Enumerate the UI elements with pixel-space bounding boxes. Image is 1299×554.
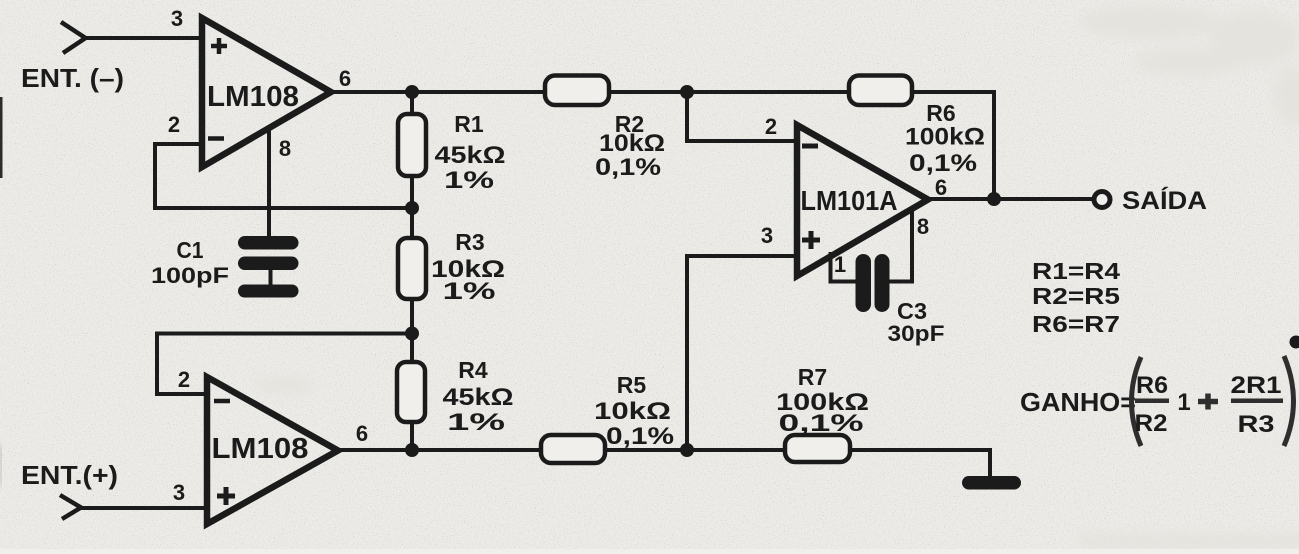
pin 6 label (U2): [356, 421, 368, 446]
formula: GANHO gain equation: [1020, 356, 1294, 446]
svg-text:SAÍDA: SAÍDA: [1122, 186, 1207, 215]
svg-text:1: 1: [1177, 389, 1190, 416]
note: resistor matching: [1032, 258, 1120, 337]
svg-text:3: 3: [173, 480, 185, 505]
resistor R7: [785, 435, 850, 462]
resistor R6: [849, 76, 912, 106]
label R6 value: [905, 100, 985, 177]
node: R4 bottom / U2 output: [405, 443, 419, 457]
wire: U1 pin 8 down to C1: [267, 128, 271, 240]
pin 3 label (U3): [761, 223, 773, 248]
svg-text:LM108: LM108: [212, 433, 309, 465]
svg-text:R3: R3: [1238, 411, 1275, 438]
label ENT.(+): [21, 460, 118, 490]
wire: ENT.(-) input to U1 pin 3: [84, 36, 203, 40]
pin 2 label (U1): [168, 112, 180, 137]
node A: R1/R3 junction with U1 feedback: [405, 201, 419, 215]
svg-text:R5: R5: [617, 372, 647, 398]
svg-text:8: 8: [917, 214, 929, 239]
label R3 value: [431, 229, 505, 305]
svg-text:6: 6: [935, 175, 947, 200]
svg-text:ENT. (–): ENT. (–): [21, 63, 124, 93]
svg-text:100pF: 100pF: [151, 263, 229, 288]
pin 2 label (U2): [178, 367, 190, 392]
resistor R4: [397, 362, 425, 422]
pin 8 label (U3): [917, 214, 929, 239]
wire: top rail U1 out through R2 and R6: [328, 90, 994, 94]
label LM108 (U2): [212, 433, 309, 465]
pin 3 label (U1): [171, 6, 183, 31]
input terminal ENT.(+) arrow: [60, 495, 81, 519]
svg-text:0,1%: 0,1%: [909, 150, 977, 177]
svg-text:45kΩ: 45kΩ: [443, 384, 514, 411]
wire: U3 pin 8 lead to C3: [888, 207, 912, 282]
resistor R2: [545, 76, 609, 106]
svg-text:R1: R1: [454, 111, 484, 137]
output terminal SAIDA: [1094, 192, 1110, 208]
svg-text:2: 2: [765, 114, 777, 139]
svg-text:LM101A: LM101A: [801, 185, 898, 216]
label LM101A (U3): [801, 185, 898, 216]
op-amp U3 LM101A: [797, 125, 928, 276]
pin 6 label (U3): [935, 175, 947, 200]
wire: R7 to ground: [988, 448, 992, 478]
node B: R3/R4 junction with U2 feedback: [405, 327, 419, 341]
svg-text:R4: R4: [458, 357, 488, 383]
svg-text:8: 8: [279, 136, 291, 161]
svg-text:1%: 1%: [444, 167, 494, 194]
svg-text:3: 3: [761, 223, 773, 248]
pin 2 label (U3): [765, 114, 777, 139]
resistor R3: [398, 238, 426, 299]
svg-text:R6: R6: [926, 100, 955, 126]
pin 6 label (U1): [339, 66, 351, 91]
op-amp U1 LM108 (top): [202, 18, 331, 167]
svg-text:100kΩ: 100kΩ: [905, 124, 985, 151]
label ENT.(-): [21, 63, 124, 93]
svg-text:GANHO=: GANHO=: [1020, 387, 1136, 417]
svg-text:6: 6: [339, 66, 351, 91]
wire: bottom rail U2 out through R5 and R7: [335, 448, 990, 452]
ground: [962, 476, 1021, 490]
pin 8 label (U1): [279, 136, 291, 161]
pin 1 label (U3): [834, 252, 846, 277]
svg-text:R6=R7: R6=R7: [1032, 311, 1120, 337]
label R1 value: [435, 111, 506, 194]
svg-text:R2=R5: R2=R5: [1032, 283, 1120, 309]
capacitor C3: [856, 254, 890, 312]
wire: U2 pin 2 feedback to node B: [157, 334, 412, 395]
svg-text:10kΩ: 10kΩ: [599, 130, 665, 157]
capacitor C1: [238, 236, 299, 298]
svg-text:2R1: 2R1: [1231, 372, 1282, 399]
svg-text:3: 3: [171, 6, 183, 31]
op-amp U2 LM108 (bottom): [207, 377, 338, 524]
svg-text:R3: R3: [455, 229, 484, 255]
svg-text:R1=R4: R1=R4: [1032, 258, 1120, 284]
node: U1 output / R1 top: [405, 85, 419, 99]
svg-text:R2: R2: [1135, 410, 1168, 437]
svg-text:0,1%: 0,1%: [606, 423, 674, 450]
svg-text:ENT.(+): ENT.(+): [21, 460, 118, 490]
label R2 value: [595, 111, 665, 181]
wire: feedback drop R6 right to output node: [992, 90, 996, 199]
label R5 value: [594, 372, 674, 450]
svg-text:LM108: LM108: [207, 81, 299, 113]
node: bottom rail / U3 pin 3 branch: [680, 443, 694, 457]
wire: vertical R1/R3/R4 chain: [410, 92, 414, 450]
svg-text:1%: 1%: [443, 278, 496, 305]
wire: U3 pin 2 branch from top rail: [687, 92, 795, 141]
label R7 value: [776, 364, 869, 437]
svg-text:R6: R6: [1136, 372, 1168, 399]
svg-text:1%: 1%: [447, 409, 505, 436]
svg-text:10kΩ: 10kΩ: [594, 398, 671, 425]
svg-text:2: 2: [178, 367, 190, 392]
svg-text:0,1%: 0,1%: [595, 154, 661, 181]
node: output / R6 feedback junction: [987, 192, 1001, 206]
svg-text:C1: C1: [177, 237, 204, 263]
svg-text:30pF: 30pF: [888, 321, 945, 346]
wire: U3 pin 1 lead to C3: [831, 252, 859, 282]
resistor R1: [398, 114, 426, 176]
label SAIDA: [1122, 186, 1207, 215]
svg-text:0,1%: 0,1%: [779, 410, 864, 437]
node: top rail / U3 pin 2 branch: [680, 85, 694, 99]
svg-text:45kΩ: 45kΩ: [435, 142, 506, 169]
label LM108 (U1): [207, 81, 299, 113]
wire: ENT.(+) input to U2 pin 3: [80, 506, 208, 510]
label C3 value: [888, 298, 945, 346]
svg-text:1: 1: [834, 252, 846, 277]
resistor R5: [541, 435, 605, 463]
svg-text:6: 6: [356, 421, 368, 446]
input terminal ENT.(-) arrow: [61, 22, 86, 53]
wire: U3 pin 3 branch from bottom rail: [687, 256, 795, 450]
wire: U3 output to SAIDA terminal: [925, 197, 1092, 201]
wire: U1 pin 2 feedback to node A: [155, 144, 412, 208]
svg-text:R7: R7: [798, 364, 827, 390]
svg-text:2: 2: [168, 112, 180, 137]
label R4 value: [443, 357, 514, 436]
pin 3 label (U2): [173, 480, 185, 505]
label C1 value: [151, 237, 229, 288]
